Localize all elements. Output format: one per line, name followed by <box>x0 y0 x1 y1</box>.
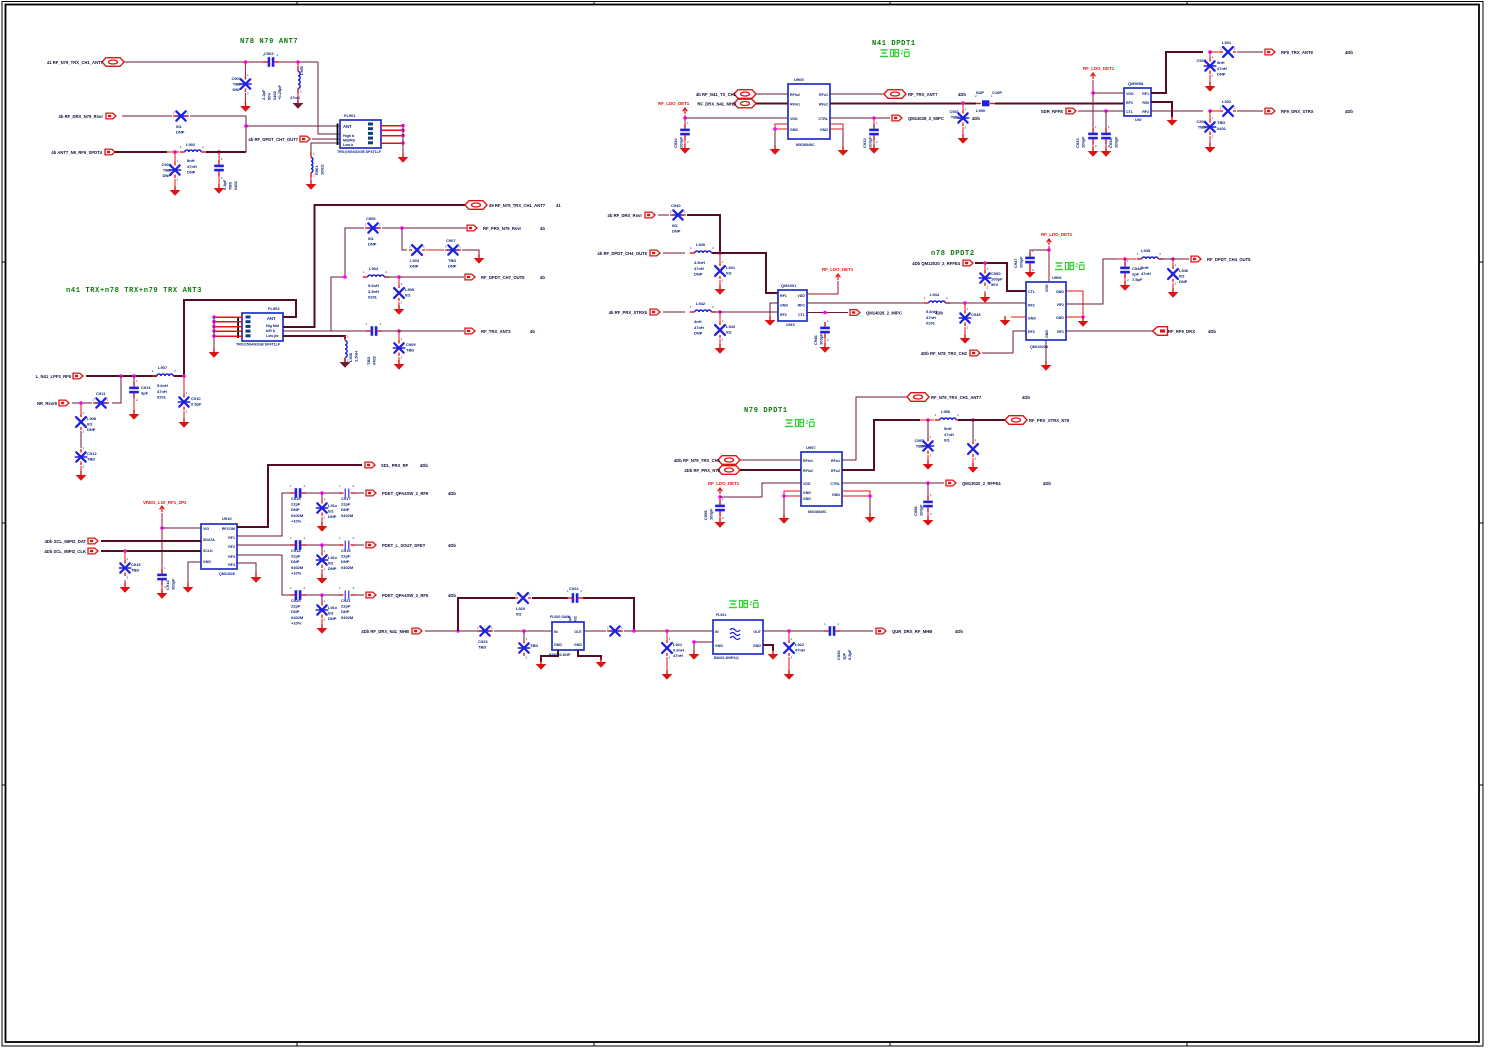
svg-text:RF_LDO_DET1: RF_LDO_DET1 <box>658 101 690 106</box>
port SDL_PRX_RF <box>365 462 409 468</box>
svg-text:QM9058: QM9058 <box>1128 81 1144 86</box>
junction D7 <box>692 640 696 644</box>
svg-text:L945: L945 <box>1141 248 1151 253</box>
svg-text:U907: U907 <box>806 445 816 450</box>
svg-text:4Db: 4Db <box>955 629 963 634</box>
junction B5 <box>397 329 401 333</box>
C921 values <box>341 598 354 620</box>
svg-text:GND: GND <box>780 304 788 308</box>
C909 labels <box>406 342 416 353</box>
junction C1 <box>160 526 164 530</box>
ground F7 <box>1205 143 1216 153</box>
svg-text:100pF: 100pF <box>867 136 872 148</box>
svg-text:n41 TRX+n78 TRX+n79 TRX ANT3: n41 TRX+n78 TRX+n79 TRX ANT3 <box>66 287 202 295</box>
svg-text:B8401-DNP2@: B8401-DNP2@ <box>714 656 739 660</box>
capacitor C914 <box>157 566 167 589</box>
C935 labels <box>1196 58 1206 63</box>
U907 lpins <box>803 459 813 473</box>
junction FL901 out4 <box>401 141 405 145</box>
svg-text:DNP: DNP <box>694 272 703 277</box>
ground D8 <box>768 650 779 660</box>
ground B5 <box>394 360 405 370</box>
wire FL902 pin4 <box>283 336 345 339</box>
C917 values <box>341 496 354 518</box>
svg-text:L920: L920 <box>516 606 526 611</box>
svg-text:TBD: TBD <box>227 182 232 190</box>
svg-text:Mid/Rb: Mid/Rb <box>343 138 356 142</box>
filter FL921 <box>713 620 763 654</box>
svg-text:GND: GND <box>790 128 798 132</box>
C932 values <box>862 136 872 148</box>
C922 values <box>567 615 577 625</box>
svg-text:QM1901: QM1901 <box>781 283 797 288</box>
ground B2 <box>474 254 485 264</box>
svg-text:2.2pF: 2.2pF <box>261 89 266 100</box>
svg-text:47nH: 47nH <box>694 266 704 271</box>
U906 lpins <box>1028 290 1036 334</box>
svg-text:VDD: VDD <box>1045 284 1049 292</box>
junction F1 <box>1091 91 1095 95</box>
svg-text:QM14028_2_MIPC: QM14028_2_MIPC <box>908 116 944 121</box>
svg-text:DNP: DNP <box>448 264 457 269</box>
svg-text:4b: 4b <box>540 226 545 231</box>
wire H ctrl <box>842 482 944 484</box>
L907 values <box>157 383 168 400</box>
ground D3 <box>536 660 547 670</box>
junction H5 <box>926 481 930 485</box>
port L_N41_LPF3_RF9 <box>36 373 83 379</box>
wire stub <box>719 339 721 345</box>
svg-text:L943: L943 <box>726 324 736 329</box>
svg-text:GND: GND <box>803 497 811 501</box>
port RF_DPDT_CH4_OUT5 G2 <box>1191 256 1251 262</box>
ground A6 <box>306 180 317 190</box>
svg-text:C950: C950 <box>991 271 1001 276</box>
L941 labels <box>726 265 736 276</box>
capacitor C950 (DNI) <box>979 267 990 290</box>
wire port2 to cap <box>122 115 172 117</box>
svg-text:DNP: DNP <box>328 566 337 571</box>
svg-text:0201: 0201 <box>926 321 936 326</box>
svg-text:22pF: 22pF <box>291 502 301 507</box>
svg-text:RF2: RF2 <box>780 313 787 317</box>
svg-text:QUR_DRX_RF_MHB: QUR_DRX_RF_MHB <box>892 629 932 634</box>
svg-text:4Db SCL_MIPI2_DAT: 4Db SCL_MIPI2_DAT <box>45 539 87 544</box>
junction G1 <box>718 251 722 255</box>
wire F rf2b <box>1210 110 1212 112</box>
svg-text:L902: L902 <box>186 142 196 147</box>
inductor L907 <box>152 369 178 376</box>
ground H6 <box>865 513 876 523</box>
FL901 bands <box>343 134 356 147</box>
junction B6 <box>119 374 123 378</box>
wire stub <box>174 152 176 162</box>
wire F rf1 <box>1151 52 1203 93</box>
svg-text:0ΩP: 0ΩP <box>976 90 984 95</box>
capacitor C934 <box>1101 125 1111 148</box>
wire F vdd <box>1092 80 1094 130</box>
svg-text:RF2: RF2 <box>1142 110 1149 114</box>
C923 labels <box>478 639 488 650</box>
svg-text:RFin1: RFin1 <box>790 103 800 107</box>
ic U907 DPDT <box>801 452 842 506</box>
capacitor C933 <box>1088 125 1098 148</box>
FL902 pin ticks <box>237 317 239 339</box>
svg-text:L901: L901 <box>299 65 304 75</box>
svg-text:47nH: 47nH <box>944 432 954 437</box>
svg-text:DNP: DNP <box>176 130 185 135</box>
svg-text:DNP: DNP <box>291 507 300 512</box>
wire C920 out <box>306 594 341 596</box>
power G2 arrow <box>1047 239 1052 245</box>
junction FL901 out2 <box>401 128 405 132</box>
svg-text:RF1: RF1 <box>228 536 235 540</box>
svg-text:47nH: 47nH <box>926 315 936 320</box>
wire C916 out <box>306 492 341 494</box>
svg-text:CTRL: CTRL <box>830 482 840 486</box>
port ANT7_N9_RF9_SPDT4 <box>51 149 115 155</box>
ferrite bead FB930 <box>975 94 995 106</box>
svg-text:VDD: VDD <box>797 294 805 298</box>
C905 values <box>222 179 238 190</box>
wire B2 down <box>402 228 407 250</box>
wire FL901 out bus <box>402 126 404 155</box>
wire E gndr2 <box>842 129 844 147</box>
svg-text:RF1: RF1 <box>1142 92 1149 96</box>
wire pin4 resistor <box>311 143 340 157</box>
svg-text:GND: GND <box>1045 330 1049 338</box>
wire C918 out <box>306 544 341 546</box>
svg-text:C901: C901 <box>231 76 241 81</box>
svg-text:VIO: VIO <box>203 527 209 531</box>
wire D bypass <box>458 598 515 631</box>
svg-text:L956: L956 <box>941 409 951 414</box>
svg-text:C921: C921 <box>341 598 351 603</box>
wire D bypass2 <box>532 597 568 599</box>
wire F vdd2 <box>1093 92 1124 94</box>
capacitor C948 <box>1120 259 1130 282</box>
wire stub <box>124 551 126 560</box>
wire stub <box>873 140 875 145</box>
wire stub <box>167 151 179 153</box>
wire stub <box>1209 75 1211 83</box>
wire stub <box>1209 136 1211 144</box>
svg-text:DNP: DNP <box>1179 279 1188 284</box>
wire stub <box>183 411 185 419</box>
port PDET_QPA4SW_2_RF9 <box>366 490 429 496</box>
svg-text:0Ω: 0Ω <box>328 561 334 566</box>
svg-text:0Ω: 0Ω <box>726 271 732 276</box>
wire G rf right2 <box>1160 258 1189 260</box>
svg-text:L921: L921 <box>673 642 683 647</box>
ground C1 <box>157 589 168 599</box>
svg-text:22pF: 22pF <box>341 554 351 559</box>
U906 rpins <box>1056 290 1064 334</box>
wire G gndr3 <box>1066 316 1083 318</box>
wire stub <box>920 419 934 421</box>
capacitor C911 (DNI) <box>93 398 109 408</box>
capacitor C932 <box>869 121 879 144</box>
capacitor C910 (DNI) <box>178 391 189 414</box>
junction C2 <box>123 549 127 553</box>
C916x labels <box>328 503 338 519</box>
C955 values <box>703 508 713 520</box>
wire H gndr2 <box>869 496 871 514</box>
ground A1 <box>240 102 251 112</box>
svg-text:L932: L932 <box>1222 99 1232 104</box>
wire D main1 <box>425 630 477 632</box>
C936 labels <box>1196 119 1206 130</box>
L903 labels <box>410 258 420 269</box>
ic QM13020A DPDT <box>1026 282 1066 340</box>
ground G5 <box>820 343 831 353</box>
wire G gndc <box>1045 340 1047 362</box>
junction D2 <box>522 629 526 633</box>
svg-text:DNP: DNP <box>368 242 377 247</box>
svg-text:100pF: 100pF <box>818 333 823 345</box>
wire FL921 gndr <box>763 645 773 651</box>
svg-text:47nH: 47nH <box>187 164 197 169</box>
svg-text:47nH: 47nH <box>157 389 167 394</box>
svg-text:C948: C948 <box>1132 266 1142 271</box>
svg-text:QM13020_2_RFFE4: QM13020_2_RFFE4 <box>962 481 1001 486</box>
capacitor C955 <box>715 497 725 520</box>
junction H4 <box>971 418 975 422</box>
wire stub <box>398 357 400 361</box>
inductor L946 (DNI) <box>1168 263 1178 286</box>
ground H1 <box>715 518 726 528</box>
C920 values <box>291 598 304 625</box>
C916 values <box>291 496 304 523</box>
svg-text:4Db RF_N78_TRX_CH2: 4Db RF_N78_TRX_CH2 <box>921 351 968 356</box>
svg-text:RF_PRX_STRX_N79: RF_PRX_STRX_N79 <box>1029 418 1070 423</box>
wire F rf2c <box>1237 110 1263 112</box>
svg-text:CTL: CTL <box>798 313 806 317</box>
svg-text:SDL_PRX_RF: SDL_PRX_RF <box>381 463 409 468</box>
svg-text:50V: 50V <box>991 282 998 287</box>
U910 right pin names <box>222 527 235 567</box>
wire stub <box>1209 52 1211 58</box>
L940 values <box>694 260 705 277</box>
wire FL902 in3 <box>214 326 242 328</box>
svg-text:1pF: 1pF <box>841 652 846 660</box>
power G arrow <box>836 274 841 280</box>
svg-text:C916: C916 <box>291 496 301 501</box>
wire stub <box>398 331 400 340</box>
wire G vdd <box>807 281 838 294</box>
svg-text:RF1: RF1 <box>1057 330 1064 334</box>
junction FL901 out1 <box>401 124 405 128</box>
svg-text:RF3: RF3 <box>1028 330 1035 334</box>
ground D4 <box>596 658 607 668</box>
svg-text:U910: U910 <box>222 516 232 521</box>
svg-text:0402: 0402 <box>272 90 277 100</box>
svg-text:TBD: TBD <box>131 568 139 573</box>
wire stub <box>972 458 974 464</box>
svg-text:4Db RF_N79_TRX_CH1: 4Db RF_N79_TRX_CH1 <box>674 458 721 463</box>
svg-text:L907: L907 <box>158 365 168 370</box>
C915 labels <box>131 562 141 573</box>
C914 values <box>165 578 175 590</box>
ic U910 MIPI switch <box>201 524 237 569</box>
green note sanmingzhi E <box>880 50 909 57</box>
capacitor C946 <box>820 319 830 342</box>
inductor L921 (DNI) <box>662 637 672 660</box>
svg-text:CTL: CTL <box>1126 110 1134 114</box>
port RF9_DRX_STRX <box>1265 108 1314 114</box>
ground H5 <box>923 516 934 526</box>
svg-text:100pF: 100pF <box>678 136 683 148</box>
svg-text:C930: C930 <box>673 138 678 148</box>
ground C4 <box>251 573 262 583</box>
wire H drop1 <box>927 420 929 438</box>
capacitor C924 (DNI) <box>518 637 529 660</box>
wire SDATA <box>101 540 201 542</box>
svg-text:GND: GND <box>574 643 582 647</box>
wire C921 out <box>355 594 364 596</box>
C902 values <box>261 84 282 100</box>
svg-text:0Ω: 0Ω <box>1179 274 1185 279</box>
svg-text:C922: C922 <box>569 586 579 591</box>
C918x labels <box>328 555 338 571</box>
port RF_DRX_N41_MHB in <box>361 628 422 634</box>
svg-text:0402M: 0402M <box>341 615 354 620</box>
capacitor C923 (DNI) <box>477 626 493 636</box>
ground B7 <box>129 410 140 420</box>
wire H in1 <box>740 459 801 461</box>
wire E ctrl <box>830 117 890 119</box>
ground G8 <box>1000 316 1011 326</box>
wire FL902 in2 <box>214 321 242 323</box>
svg-text:22pF: 22pF <box>291 604 301 609</box>
capacitor C918x (DNI) <box>316 549 327 572</box>
svg-text:L946: L946 <box>1179 268 1189 273</box>
L905 labels <box>405 287 415 298</box>
svg-text:1.5nH: 1.5nH <box>353 351 358 362</box>
C901 labels <box>231 76 241 92</box>
svg-text:0402: 0402 <box>1217 126 1227 131</box>
svg-text:47nH: 47nH <box>694 325 704 330</box>
wire cap to corner <box>190 116 246 152</box>
wire stub <box>174 179 176 187</box>
svg-text:L908: L908 <box>87 416 97 421</box>
wire G gndr2 <box>1066 291 1083 318</box>
svg-text:4Db: 4Db <box>972 116 980 121</box>
junction A2 <box>296 60 300 64</box>
junction G2 <box>718 310 722 314</box>
svg-text:PDET_QPA4SW_2_RF9: PDET_QPA4SW_2_RF9 <box>382 491 429 496</box>
svg-text:0Ω: 0Ω <box>368 236 374 241</box>
wire stub <box>964 303 966 310</box>
ground B4 (dark) <box>340 358 351 368</box>
wire stub <box>426 249 444 251</box>
svg-text:4b RF_DRX_Rsvr: 4b RF_DRX_Rsvr <box>608 213 643 218</box>
svg-text:0Ω: 0Ω <box>328 509 334 514</box>
wire stub <box>964 327 966 335</box>
svg-text:C911: C911 <box>96 391 106 396</box>
svg-text:L944: L944 <box>930 292 940 297</box>
svg-text:0.5pF: 0.5pF <box>847 649 852 660</box>
svg-text:L941: L941 <box>726 265 736 270</box>
wire stub <box>321 619 323 625</box>
capacitor C945 (DNI) <box>959 307 970 330</box>
svg-text:C933: C933 <box>1075 138 1080 148</box>
svg-text:U915: U915 <box>786 323 795 327</box>
svg-text:SCLK: SCLK <box>203 549 213 553</box>
wire bus branch23 <box>331 228 364 331</box>
wire D main5 <box>763 630 826 632</box>
L943 labels <box>726 324 736 335</box>
wire E gndl <box>775 124 788 129</box>
ground D6 <box>662 670 673 680</box>
junction D9 <box>787 629 791 633</box>
wire stub <box>788 631 790 640</box>
C924 labels <box>530 643 538 648</box>
L906 values <box>348 351 358 362</box>
ground row C916 <box>317 522 328 532</box>
wire G6 <box>712 311 778 313</box>
svg-text:TRX@5G4G2GB SP4T1LF: TRX@5G4G2GB SP4T1LF <box>236 343 281 347</box>
wire stub <box>1124 278 1126 282</box>
svg-text:RF9_DRX_STRX: RF9_DRX_STRX <box>1281 109 1314 114</box>
wire stub <box>1209 111 1211 119</box>
svg-text:IN: IN <box>554 630 558 634</box>
svg-text:RF_LDO_DET1: RF_LDO_DET1 <box>822 267 854 272</box>
ground FL902 ins <box>209 348 220 358</box>
FL901 pin ticks <box>337 124 339 146</box>
port RF_PRX_STRX5 G <box>609 309 660 315</box>
wire L907 out <box>174 375 184 377</box>
port RF_N79_TRX_CH1_ANT7 out <box>465 201 546 210</box>
wire E vdd2 <box>685 117 788 119</box>
wire FL902 in5 <box>214 335 242 337</box>
svg-text:41: 41 <box>556 203 561 208</box>
wire stub <box>133 398 135 411</box>
wire G1 <box>658 214 669 216</box>
port RF_TRX_ANT3 <box>465 328 511 334</box>
C903 labels <box>176 124 185 135</box>
L904 values <box>368 283 379 300</box>
junction FL902 in1 <box>212 315 216 319</box>
svg-text:DNP: DNP <box>163 173 172 178</box>
ic U905 DPDT <box>788 84 830 139</box>
svg-text:C906: C906 <box>366 216 376 221</box>
svg-text:C945: C945 <box>971 312 981 317</box>
svg-text:GND: GND <box>715 644 723 648</box>
svg-text:QM14028_2_MIPC: QM14028_2_MIPC <box>866 310 902 315</box>
wire H drop2 <box>972 420 974 441</box>
L944 values <box>926 309 937 326</box>
QM1901 lpins <box>780 294 788 317</box>
svg-text:4Db: 4Db <box>958 92 966 97</box>
wire E in1 <box>756 93 788 95</box>
svg-text:0201: 0201 <box>157 395 167 400</box>
wire stub <box>927 512 929 517</box>
junction G7 <box>983 261 987 265</box>
wire stub <box>719 312 721 322</box>
svg-text:L940: L940 <box>696 242 706 247</box>
junction E3 <box>961 101 965 105</box>
junction B3 <box>397 275 401 279</box>
junction row C916 <box>320 491 324 495</box>
junction G8b <box>1081 315 1085 319</box>
wire stub <box>719 280 721 286</box>
svg-text:TBD: TBD <box>366 357 371 365</box>
svg-text:IN: IN <box>715 630 719 634</box>
L902 values <box>187 158 197 175</box>
wire G2 <box>687 215 720 253</box>
svg-text:TBD: TBD <box>478 645 486 650</box>
